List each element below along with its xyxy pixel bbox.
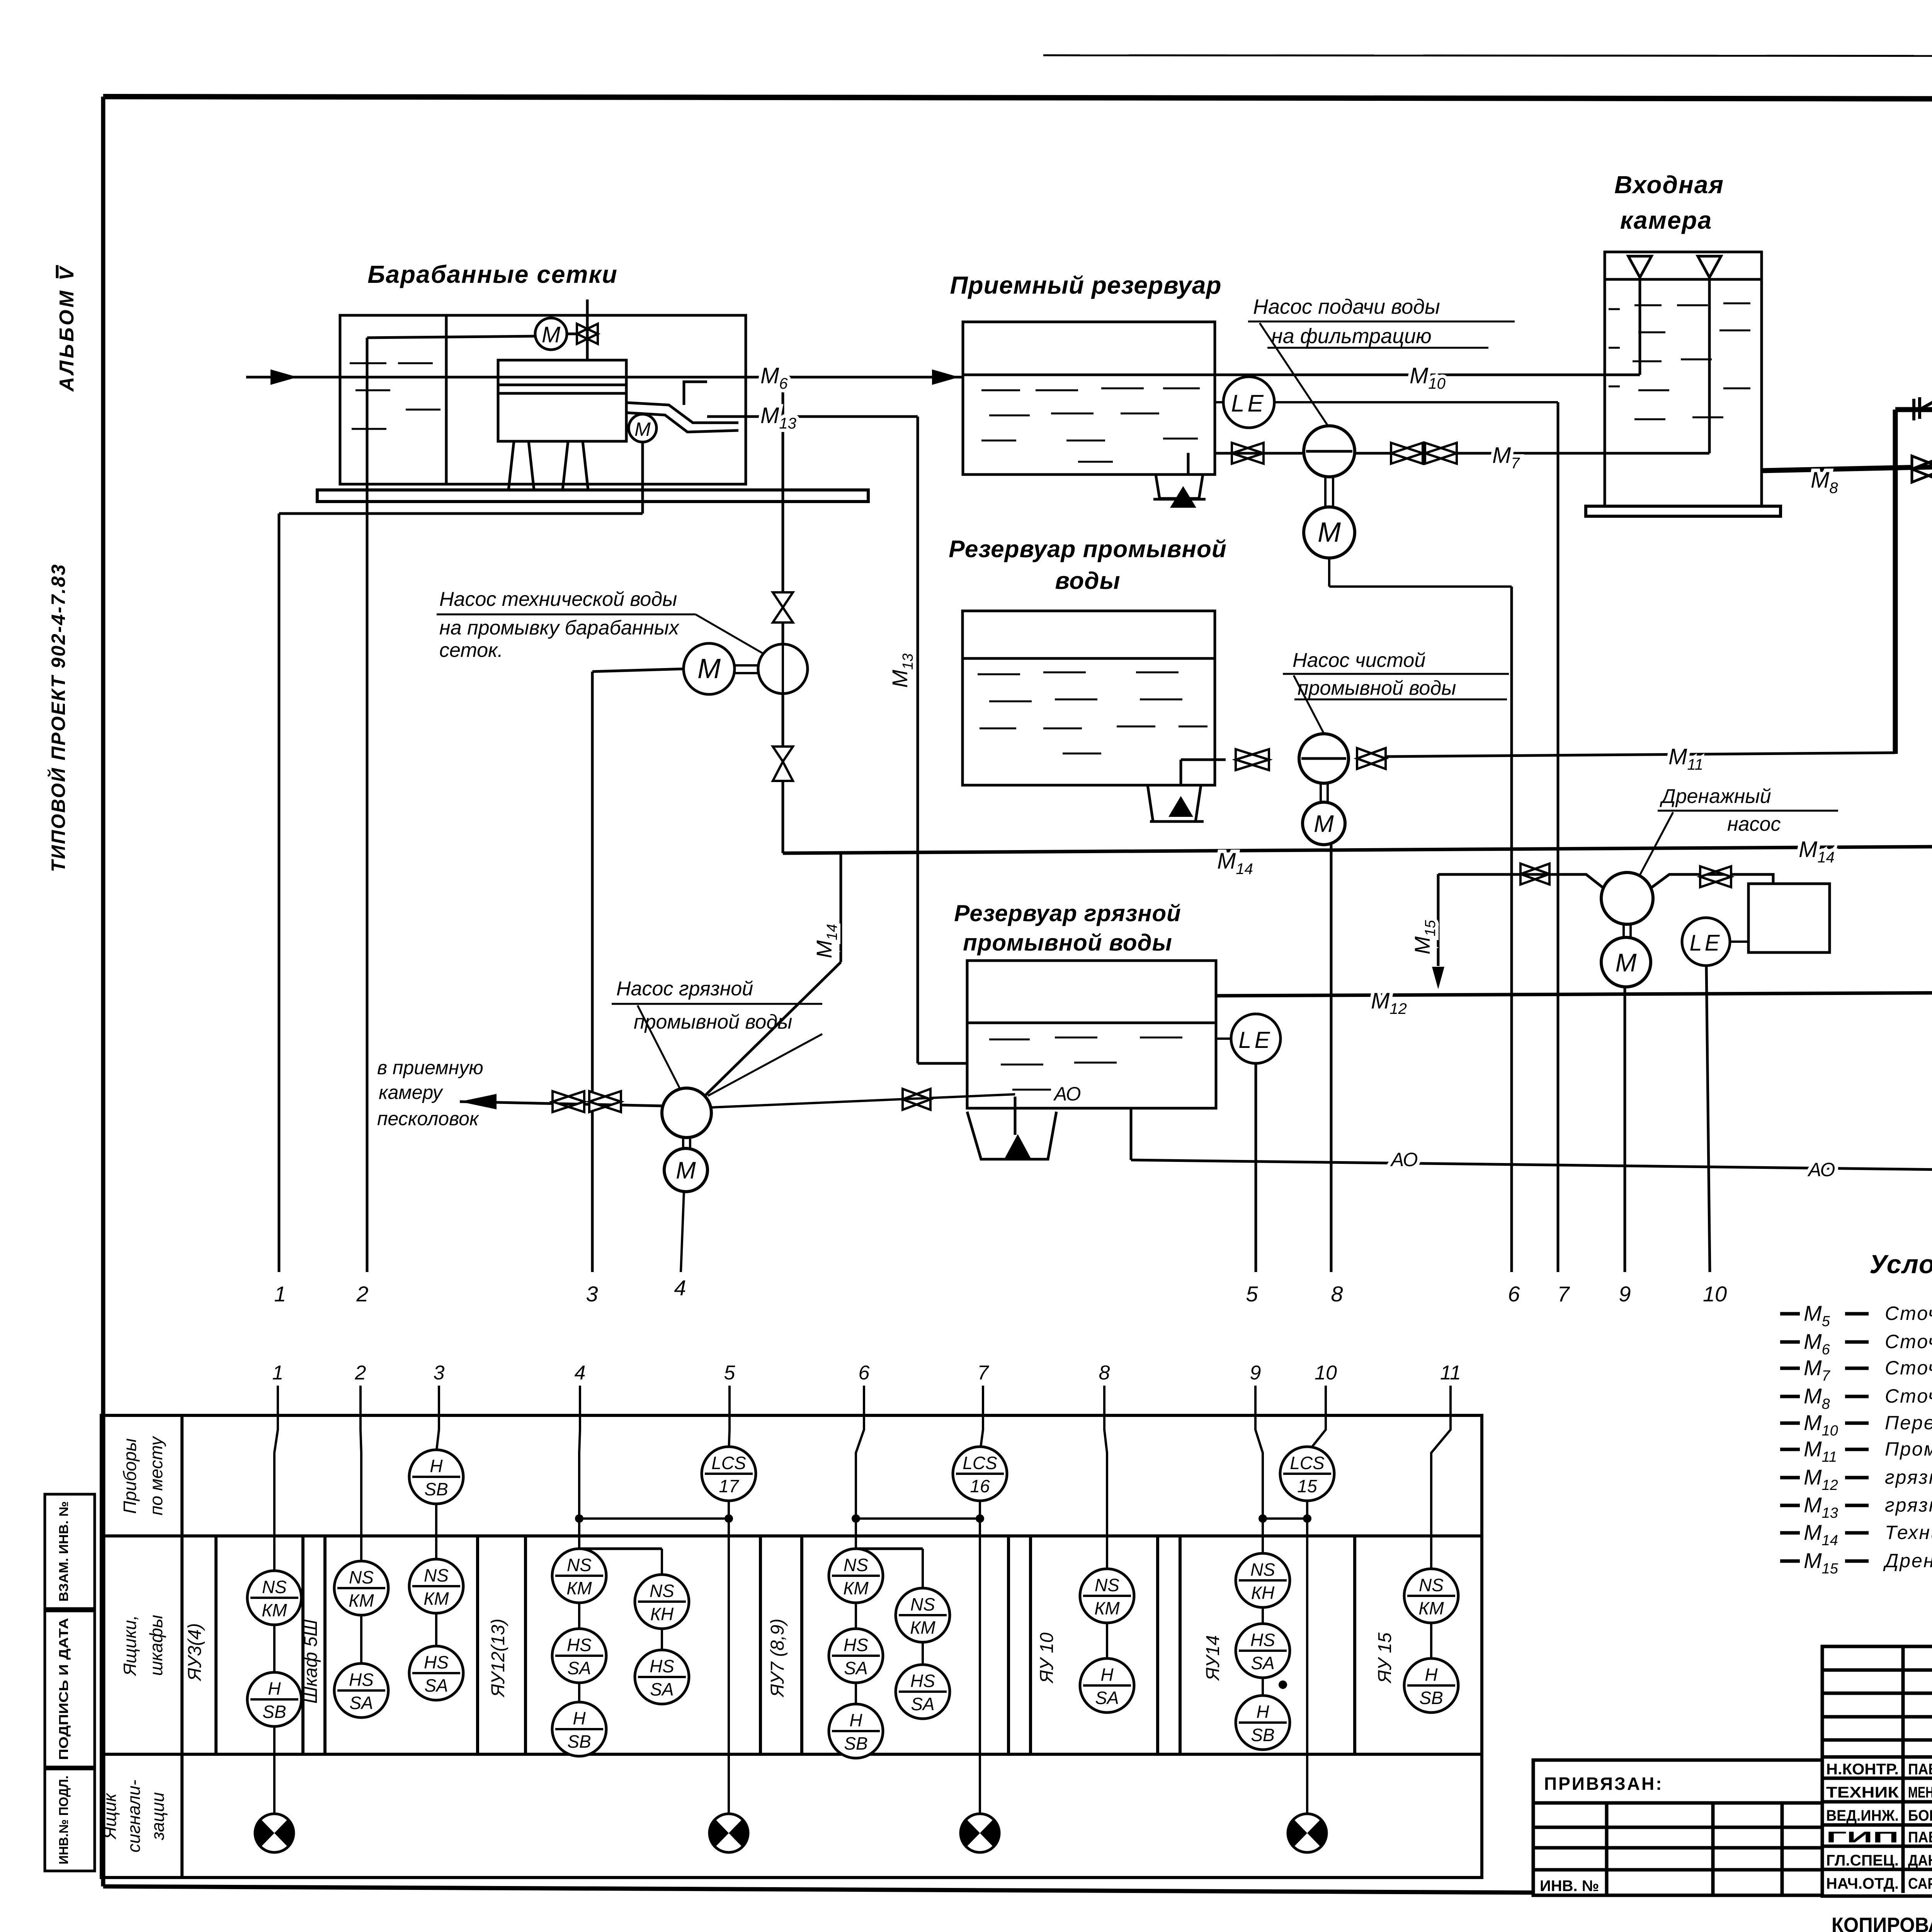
svg-text:КМ: КМ [566,1578,592,1598]
svg-text:ЯУ12(13): ЯУ12(13) [488,1619,509,1698]
svg-text:NS: NS [349,1567,374,1587]
svg-text:насос: насос [1727,813,1781,835]
svg-text:ЯУ 10: ЯУ 10 [1037,1633,1057,1684]
svg-text:4: 4 [575,1362,586,1384]
svg-text:SВ: SВ [1251,1725,1274,1745]
svg-text:промывной воды: промывной воды [634,1011,792,1033]
svg-text:Промывная вода на фильтр: Промывная вода на фильтр [1885,1438,1932,1460]
svg-text:Техническая вода: Техническая вода [1885,1522,1932,1543]
svg-text:Сточная вода на фильтрацию: Сточная вода на фильтрацию [1885,1385,1932,1407]
svg-text:NS: NS [1419,1575,1444,1595]
svg-text:SА: SА [349,1693,373,1713]
svg-text:песколовок: песколовок [377,1108,480,1129]
svg-text:Резервуар промывной: Резервуар промывной [949,536,1226,563]
svg-text:КМ: КМ [910,1617,935,1638]
svg-text:НS: НS [910,1671,935,1691]
svg-text:М: М [542,322,561,347]
svg-text:Сточная вода после доочистки.: Сточная вода после доочистки. [1885,1303,1932,1324]
svg-text:SВ: SВ [1419,1688,1443,1708]
svg-text:ПОДПИСЬ И ДАТА: ПОДПИСЬ И ДАТА [56,1618,71,1760]
svg-text:LCS: LCS [963,1453,997,1473]
svg-text:LE: LE [1238,1027,1273,1053]
svg-text:NS: NS [424,1565,449,1585]
svg-text:NS: NS [567,1555,592,1575]
svg-text:5: 5 [724,1362,736,1384]
svg-text:грязная промывная вода после: грязная промывная вода после фильтров [1885,1466,1932,1488]
svg-text:НS: НS [424,1652,449,1672]
svg-text:10: 10 [1703,1282,1727,1306]
svg-text:Н: Н [1425,1665,1438,1685]
svg-text:камеру: камеру [379,1082,444,1103]
svg-text:Н: Н [268,1679,281,1699]
svg-text:Насос подачи воды: Насос подачи воды [1253,295,1440,318]
svg-text:ТИПОВОЙ ПРОЕКТ 902-4-7.83: ТИПОВОЙ ПРОЕКТ 902-4-7.83 [47,563,69,872]
svg-text:Дренажная вода.: Дренажная вода. [1883,1550,1932,1571]
svg-text:11: 11 [1440,1362,1461,1384]
svg-text:NS: NS [910,1594,935,1614]
svg-text:КМ: КМ [1094,1598,1120,1618]
svg-text:SВ: SВ [424,1479,448,1499]
svg-text:Шкаф 5Ш: Шкаф 5Ш [301,1619,321,1704]
svg-text:Н.КОНТР.: Н.КОНТР. [1826,1761,1899,1778]
svg-text:8: 8 [1099,1362,1110,1384]
svg-text:ПРИВЯЗАН:: ПРИВЯЗАН: [1544,1774,1663,1794]
svg-text:SВ: SВ [844,1733,867,1753]
svg-text:ДАНИЛОВ: ДАНИЛОВ [1908,1852,1932,1869]
svg-text:NS: NS [650,1581,674,1601]
svg-text:НS: НS [567,1635,592,1655]
svg-text:17: 17 [719,1476,739,1496]
svg-text:6: 6 [1508,1282,1520,1306]
svg-text:ПАВЛОВА: ПАВЛОВА [1908,1829,1932,1846]
svg-text:М: М [697,653,721,684]
svg-text:ЯУ 15: ЯУ 15 [1375,1633,1395,1684]
svg-text:ГЛ.СПЕЦ.: ГЛ.СПЕЦ. [1826,1852,1899,1869]
svg-text:Насос грязной: Насос грязной [616,978,753,1000]
svg-text:9: 9 [1250,1362,1261,1384]
svg-text:Н: Н [430,1456,443,1476]
svg-text:10: 10 [1315,1362,1337,1384]
svg-text:ИНВ.№ ПОДЛ.: ИНВ.№ ПОДЛ. [56,1776,71,1864]
svg-text:М: М [1314,811,1334,837]
svg-text:Н: Н [573,1708,586,1728]
svg-text:1: 1 [272,1362,284,1384]
svg-text:3: 3 [434,1362,445,1384]
svg-text:SВ: SВ [567,1731,591,1752]
svg-text:7: 7 [1557,1282,1570,1306]
svg-text:LE: LE [1690,930,1723,956]
svg-text:на промывку барабанных: на промывку барабанных [439,617,680,639]
svg-text:М: М [634,418,651,440]
svg-text:ЯУ7 (8,9): ЯУ7 (8,9) [767,1619,788,1698]
svg-text:ЯУ14: ЯУ14 [1203,1635,1223,1682]
svg-text:Н: Н [849,1710,862,1730]
svg-text:шкафы: шкафы [146,1615,166,1676]
svg-text:SА: SА [650,1679,673,1699]
svg-text:Барабанные сетки: Барабанные сетки [367,260,618,288]
svg-text:ВЗАМ. ИНВ. №: ВЗАМ. ИНВ. № [56,1501,71,1602]
svg-text:4: 4 [674,1276,686,1300]
svg-text:Приемный резервуар: Приемный резервуар [950,271,1221,299]
svg-text:КМ: КМ [423,1588,449,1609]
svg-text:КН: КН [1251,1583,1275,1603]
svg-text:LE: LE [1231,390,1267,417]
svg-text:8: 8 [1331,1282,1343,1306]
svg-text:промывной воды: промывной воды [963,930,1172,956]
svg-text:Ящики,: Ящики, [120,1615,140,1677]
svg-text:ИНВ. №: ИНВ. № [1540,1878,1599,1895]
svg-text:SА: SА [424,1675,448,1696]
svg-text:Сточная вода во входную камер: Сточная вода во входную камеру [1885,1357,1932,1379]
svg-text:промывной воды: промывной воды [1298,677,1456,699]
svg-text:АО: АО [1390,1149,1418,1170]
svg-text:зации: зации [148,1792,168,1840]
svg-text:LCS: LCS [711,1453,746,1473]
svg-text:Н: Н [1100,1665,1114,1685]
svg-text:Приборы: Приборы [120,1438,140,1514]
svg-text:Ящик: Ящик [100,1793,120,1840]
svg-text:9: 9 [1619,1282,1631,1306]
svg-text:БОЕВА: БОЕВА [1908,1807,1932,1824]
svg-text:2: 2 [356,1282,368,1306]
svg-text:6: 6 [859,1362,870,1384]
svg-text:Входная: Входная [1614,171,1724,199]
svg-text:МЕНОВЩИКОВА: МЕНОВЩИКОВА [1908,1784,1932,1801]
svg-text:Н: Н [1256,1702,1269,1722]
svg-text:16: 16 [970,1476,990,1496]
svg-text:Условные обозначения.: Условные обозначения. [1869,1250,1932,1279]
svg-text:SА: SА [1095,1688,1119,1708]
svg-text:SА: SА [844,1658,867,1678]
svg-text:М: М [1318,517,1341,548]
svg-text:ЯУ3(4): ЯУ3(4) [185,1623,205,1682]
svg-text:Резервуар грязной: Резервуар грязной [954,900,1181,926]
svg-text:NS: NS [1250,1560,1275,1580]
svg-text:НS: НS [349,1670,374,1690]
svg-text:камера: камера [1620,206,1712,234]
svg-text:КОПИРОВАЛ: ЛОГИНОВА: КОПИРОВАЛ: ЛОГИНОВА [1832,1913,1932,1932]
svg-text:SА: SА [1251,1653,1274,1673]
svg-text:по месту: по месту [146,1435,166,1515]
svg-text:КН: КН [650,1604,674,1624]
svg-text:Насос чистой: Насос чистой [1293,649,1425,672]
svg-text:NS: NS [844,1555,868,1575]
svg-text:НАЧ.ОТД.: НАЧ.ОТД. [1826,1875,1899,1892]
svg-text:1: 1 [274,1282,286,1306]
svg-text:АО: АО [1807,1159,1835,1180]
svg-text:Дренажный: Дренажный [1660,785,1771,808]
svg-text:Переливная вода из входной кам: Переливная вода из входной камеры [1885,1412,1932,1434]
svg-text:в приемную: в приемную [377,1057,483,1078]
svg-text:NS: NS [1095,1575,1119,1595]
svg-text:грязная промывная вода после: грязная промывная вода после барабанных … [1885,1494,1932,1516]
svg-text:сигнали-: сигнали- [124,1780,144,1853]
svg-text:7: 7 [978,1362,990,1384]
svg-text:сеток.: сеток. [439,639,503,662]
svg-text:КМ: КМ [843,1578,869,1598]
svg-text:САРКИСЬЯНЦ: САРКИСЬЯНЦ [1908,1875,1932,1892]
svg-text:КМ: КМ [1418,1598,1444,1618]
svg-text:SА: SА [911,1694,934,1714]
svg-text:М: М [1616,948,1637,977]
svg-text:LCS: LCS [1290,1453,1325,1473]
svg-text:5: 5 [1246,1282,1258,1306]
svg-text:ГИП: ГИП [1826,1829,1899,1846]
svg-text:Насос технической воды: Насос технической воды [439,588,677,611]
svg-text:SB: SB [262,1702,286,1722]
svg-text:3: 3 [586,1282,598,1306]
svg-text:2: 2 [355,1362,366,1384]
svg-text:ТЕХНИК: ТЕХНИК [1826,1784,1899,1801]
svg-text:КМ: КМ [349,1590,374,1611]
svg-text:ПАВЛОВА: ПАВЛОВА [1908,1761,1932,1778]
svg-text:М: М [676,1157,696,1184]
svg-text:НS: НS [844,1635,868,1655]
svg-text:НS: НS [650,1656,674,1676]
svg-text:ВЕД.ИНЖ.: ВЕД.ИНЖ. [1826,1807,1899,1824]
svg-text:КМ: КМ [262,1600,287,1620]
svg-text:NS: NS [262,1577,287,1597]
svg-text:SА: SА [567,1658,591,1678]
svg-text:на фильтрацию: на фильтрацию [1271,325,1432,348]
svg-text:15: 15 [1297,1476,1317,1496]
svg-text:НS: НS [1250,1630,1275,1650]
svg-text:Сточная вода после барабанных: Сточная вода после барабанных сеток [1885,1331,1932,1352]
svg-text:АЛЬБОМ V: АЛЬБОМ V [56,265,78,392]
svg-text:воды: воды [1055,568,1120,594]
svg-text:АО: АО [1053,1083,1081,1105]
